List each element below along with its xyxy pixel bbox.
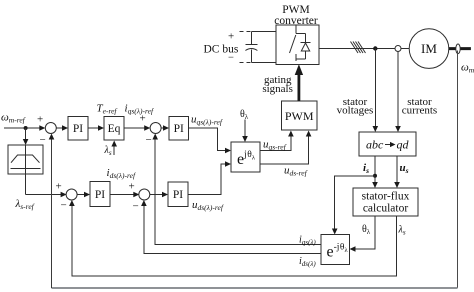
svg-text:uds(λ)-ref: uds(λ)-ref bbox=[192, 199, 224, 212]
wire i_ds(lambda) feedback to J4 bbox=[141, 200, 321, 254]
svg-text:abc: abc bbox=[366, 138, 384, 152]
svg-text:+: + bbox=[140, 113, 146, 125]
svg-text:−: − bbox=[40, 134, 46, 146]
wire J1 to PI1 bbox=[56, 125, 68, 131]
capacitor DC link bbox=[245, 31, 257, 62]
wire stator current measurement down to abc-qd bbox=[395, 52, 401, 133]
wire J4 to PI4 bbox=[150, 192, 168, 198]
wire PI3 to J4 bbox=[110, 192, 139, 198]
wire i_qs(lambda) feedback to J2 bbox=[152, 134, 321, 245]
node motor shaft bbox=[449, 44, 471, 54]
svg-text:is: is bbox=[363, 162, 369, 175]
node PWM converter title bbox=[274, 4, 318, 27]
summing junction J1 speed bbox=[37, 114, 56, 147]
wire PI2 output to ejtheta block bbox=[189, 128, 232, 153]
wire u_ds-ref to PWM bbox=[260, 131, 311, 165]
wire i_s from abc-qd to stator-flux calculator bbox=[372, 156, 378, 188]
svg-text:+: + bbox=[129, 181, 135, 193]
svg-text:θλ: θλ bbox=[362, 224, 371, 236]
node i_s tap dot bbox=[373, 174, 377, 178]
wire theta_lambda from calculator to e-jtheta bbox=[350, 216, 376, 252]
block Eq torque equation bbox=[104, 117, 124, 141]
svg-text:iqs(λ): iqs(λ) bbox=[299, 235, 316, 247]
wire u_qs-ref to PWM bbox=[260, 131, 294, 151]
node theta_lambda input label above ejtheta bbox=[240, 109, 249, 142]
wire branch down to field-weakening block bbox=[23, 128, 29, 145]
wire DC bus bottom dashed bbox=[240, 61, 252, 63]
svg-text:−: − bbox=[133, 201, 139, 213]
svg-text:us: us bbox=[400, 162, 409, 175]
node stator currents label bbox=[402, 96, 437, 117]
wire Eq to J2 bbox=[124, 125, 150, 131]
svg-text:ids(λ): ids(λ) bbox=[299, 256, 316, 268]
block PI2 q-current controller bbox=[169, 117, 189, 141]
svg-text:currents: currents bbox=[402, 105, 437, 117]
wire stator voltage measurement down to abc-qd bbox=[373, 49, 379, 133]
svg-text:−: − bbox=[228, 53, 234, 64]
node voltage tap dot bbox=[373, 46, 377, 50]
transistor IGBT with diode inside converter bbox=[290, 25, 311, 61]
block PWM modulator bbox=[282, 101, 318, 130]
svg-text:uqs(λ)-ref: uqs(λ)-ref bbox=[191, 114, 223, 127]
node gating signals label bbox=[262, 74, 293, 95]
node branch dot to field-weakening bbox=[24, 126, 28, 130]
svg-text:Eq: Eq bbox=[108, 123, 121, 135]
svg-text:−: − bbox=[61, 200, 67, 212]
svg-text:calculator: calculator bbox=[363, 203, 409, 215]
svg-text:ωm-ref: ωm-ref bbox=[1, 112, 26, 125]
svg-text:λs-ref: λs-ref bbox=[15, 198, 35, 211]
block PI4 d-current controller bbox=[168, 182, 188, 207]
node three-phase slash marks bbox=[351, 42, 366, 54]
summing junction J4 d-current bbox=[129, 181, 150, 213]
wire field-weakening output to J3 bbox=[26, 174, 67, 197]
svg-text:Te-ref: Te-ref bbox=[97, 103, 118, 116]
wire i_s tap to e-jtheta block bbox=[332, 176, 375, 235]
motor IM induction machine bbox=[409, 29, 449, 69]
block ejtheta vector rotator bbox=[231, 142, 260, 172]
summing junction J3 flux bbox=[56, 181, 78, 212]
svg-text:PI: PI bbox=[173, 189, 183, 201]
svg-text:λs: λs bbox=[398, 225, 406, 237]
wire J2 to PI2 bbox=[161, 125, 169, 131]
svg-text:uds-ref: uds-ref bbox=[284, 165, 308, 178]
svg-text:+: + bbox=[37, 114, 43, 126]
svg-text:θλ: θλ bbox=[240, 109, 249, 121]
wire u_s from abc-qd to stator-flux calculator bbox=[394, 156, 400, 188]
svg-text:PWM: PWM bbox=[285, 109, 314, 123]
svg-text:IM: IM bbox=[421, 41, 437, 56]
block field-weakening profile bbox=[8, 145, 43, 174]
wire speed feedback from shaft to J1 bbox=[49, 51, 458, 289]
block PI3 flux controller bbox=[90, 182, 110, 207]
svg-text:ωm: ωm bbox=[461, 62, 474, 75]
block PWM converter bbox=[276, 25, 319, 64]
svg-text:stator-flux: stator-flux bbox=[362, 191, 410, 203]
svg-text:PI: PI bbox=[95, 189, 105, 201]
wire lambda_s feedback to J3 bbox=[69, 200, 397, 276]
block PI1 speed controller bbox=[68, 117, 88, 141]
node current sensor circle bbox=[395, 46, 401, 52]
wire DC bus top dashed bbox=[240, 30, 252, 32]
svg-text:−: − bbox=[146, 134, 152, 146]
wire DC bus top solid bbox=[251, 30, 276, 32]
wire PI1 to Eq bbox=[88, 125, 104, 131]
node stator voltages label bbox=[337, 96, 374, 117]
wire gating signals thick arrow bbox=[295, 64, 303, 101]
svg-text:+: + bbox=[228, 31, 234, 43]
node lambda_s input to Eq bbox=[104, 141, 118, 158]
block stator-flux calculator bbox=[353, 188, 418, 216]
wire DC bus bottom solid bbox=[251, 61, 276, 63]
svg-text:voltages: voltages bbox=[337, 105, 374, 117]
wire J3 to PI3 bbox=[77, 192, 90, 198]
summing junction J2 q-current bbox=[140, 113, 162, 147]
svg-text:signals: signals bbox=[262, 83, 293, 95]
svg-text:PI: PI bbox=[73, 123, 83, 135]
wire speed reference input bbox=[4, 125, 45, 131]
svg-text:uqs-ref: uqs-ref bbox=[263, 139, 287, 152]
svg-text:PI: PI bbox=[174, 123, 184, 135]
svg-text:qd: qd bbox=[397, 138, 410, 152]
svg-text:ids(λ)-ref: ids(λ)-ref bbox=[107, 167, 136, 180]
wire converter output to motor bbox=[319, 48, 409, 50]
block e-jtheta inverse rotator bbox=[321, 235, 350, 265]
svg-text:λs: λs bbox=[104, 145, 112, 157]
svg-text:+: + bbox=[56, 181, 62, 193]
wire PI4 output to ejtheta block bbox=[188, 161, 231, 194]
block abc to qd transformation bbox=[359, 132, 416, 156]
